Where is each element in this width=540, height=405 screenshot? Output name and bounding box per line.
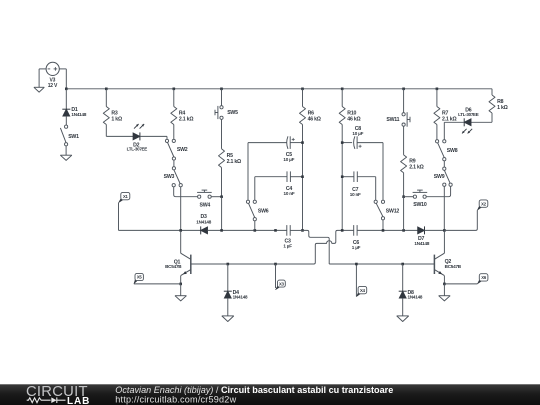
wire rail to SW11 [403,89,405,113]
ground below Q2 [439,284,451,301]
wire junction to SW4 [181,196,198,198]
capacitor C3 1uF [283,225,292,249]
junction dot X3 [274,263,277,266]
switch SW9 [434,167,452,186]
diode D1 1N4148 [62,107,87,117]
wire R8 to D6 [471,121,492,123]
svg-text:1 µF: 1 µF [283,244,292,249]
wire C5 to SW6 left [247,143,249,201]
wire V3 right to rail [59,68,66,70]
CircuitLab logo [26,384,90,405]
svg-text:2.1 kΩ: 2.1 kΩ [442,116,456,122]
svg-text:SW12: SW12 [386,209,400,215]
terminal X4 [357,286,367,296]
switch SW12 [374,200,399,220]
wire SW11 to R9 [403,126,405,155]
wire rail to SW5 [221,89,223,106]
resistor R5 2.1k [219,149,242,197]
svg-text:SW4: SW4 [200,202,211,208]
capacitor C5 10uF [248,136,303,162]
svg-text:10 nF: 10 nF [284,191,295,196]
svg-text:LAB: LAB [67,396,90,405]
wire SW3 blade tip down [180,187,182,197]
svg-text:SW11: SW11 [386,117,399,123]
transistor Q1 BC547B [165,253,191,275]
wire to X2 [444,210,477,230]
switch SW8 [436,140,458,161]
wire top supply rail [66,88,492,90]
switch SW3 [164,167,183,187]
diode D4 1N4148 [224,264,248,316]
wire SW9 blade tip to junction [444,186,450,196]
ground below V3 [34,87,44,92]
wire X6 to emitter [444,283,477,285]
wire rail to D1 [65,89,67,109]
footer credit text [115,385,393,405]
wire C3 to R6 node [290,229,302,231]
wire SW5 to R5 [221,119,223,148]
resistor R9 2.1k [401,155,424,197]
wire X4 [355,264,357,297]
ground below D8 [397,316,409,322]
svg-text:Octavian Enachi (tibijay) / Ci: Octavian Enachi (tibijay) / Circuit basc… [115,385,393,395]
capacitor C6 1uF [352,225,361,250]
svg-text:SW8: SW8 [447,148,458,154]
svg-text:46 kΩ: 46 kΩ [308,116,321,122]
terminal X5 [134,273,144,283]
wire cross B C6 node to Q1 base [191,230,354,264]
terminal X2 [477,200,488,210]
junction dot C4-R6 [301,175,304,178]
LED D2 LTL-307EE [127,124,148,152]
pushbutton SW10 [413,190,428,208]
diode D7 1N4148 [414,226,429,246]
wire SW9 junction down to D7 node [443,197,445,231]
footer bar [0,384,540,405]
junction dot R5 branch [220,229,223,232]
junction dot D8 [401,263,404,266]
wire C4 to SW6 right [254,177,256,201]
resistor R4 2.1k [171,89,194,140]
resistor R3 1k [103,89,122,137]
junction dot D4 [227,263,230,266]
svg-text:SW6: SW6 [258,208,269,214]
svg-text:10 µF: 10 µF [352,131,363,136]
switch SW2 [165,139,187,160]
junction dot Q1 emitter [179,283,182,286]
terminal X6 [477,274,488,284]
svg-text:12 V: 12 V [48,83,58,89]
wire R9 node to SW10 [404,196,414,198]
wire C6 right section [357,229,418,231]
wire Q1 emitter down [180,276,182,284]
svg-text:2.1 kΩ: 2.1 kΩ [227,159,241,165]
svg-text:1N4148: 1N4148 [414,241,429,246]
svg-text:1 µF: 1 µF [352,245,361,250]
svg-text:1 kΩ: 1 kΩ [111,116,122,122]
junction dot R10 bottom [341,229,344,232]
wire SW10 to SW9 junction [426,196,444,198]
transistor Q2 BC547B [434,253,461,275]
wire cross A C3 node to Q2 base [303,230,330,264]
junction dot Q2 collector node [443,229,446,232]
junction dot Q2 emitter [443,283,446,286]
terminal X1 [119,192,130,202]
wire SW12 to bottom node [382,220,384,231]
svg-text:SW2: SW2 [177,147,188,153]
junction dot C7-R10 [341,175,344,178]
diode D8 1N4148 [399,264,423,316]
wire R3 to D2 [106,135,133,137]
terminal X3 [276,280,286,290]
junction dot collector Q1 [179,229,182,232]
svg-text:LTL-307EE: LTL-307EE [127,147,148,152]
svg-text:10 µF: 10 µF [283,157,294,162]
wire SW9 left throw down [443,186,445,196]
svg-text:BC547B: BC547B [165,264,182,269]
svg-text:BC547B: BC547B [445,264,462,269]
wire D1 to SW1 [65,116,67,125]
capacitor C4 10nF [255,171,303,196]
wire junction down to collector node [180,197,182,231]
svg-text:1N4148: 1N4148 [196,219,211,224]
resistor R7 2.1k [434,89,457,140]
ground below D4 [222,316,234,322]
junction dot C8-R10 [341,141,344,144]
pushbutton SW4 [197,190,212,208]
switch SW1 [60,125,79,146]
wire D2 to SW2 [140,135,167,137]
wire SW4 to R5 node [211,196,221,198]
resistor R6 46k [300,89,321,231]
svg-text:SW9: SW9 [434,174,445,180]
switch SW6 [246,200,268,221]
junction dot C3-R6 [301,229,304,232]
svg-text:SW1: SW1 [68,134,79,140]
junction dot C5-R6 [301,141,304,144]
svg-text:LTL-307EE: LTL-307EE [458,112,479,117]
wire SW2 to SW3 [173,160,175,167]
wire R9 node down [403,197,405,231]
wire SW6 to bottom node [254,221,256,231]
junction dot SW4-R5 [220,195,223,198]
junction dot R9-SW10 [402,195,405,198]
wire cross A horizontal to Q2 [329,263,434,265]
wire Q1 collector [180,230,182,253]
svg-text:46 kΩ: 46 kΩ [347,116,360,122]
svg-text:SW3: SW3 [164,174,175,180]
junction dot X4 [355,263,358,266]
wire X5 to emitter [134,283,181,285]
junction dot SW12 bottom [382,229,385,232]
ground below SW1 [60,155,72,160]
junction dot SW6 branch [254,229,257,232]
svg-text:1N4148: 1N4148 [71,112,86,117]
resistor R10 46k [339,89,360,231]
pushbutton SW11 [386,112,410,127]
wire X1 down [118,203,120,231]
wire Q2 collector [443,230,445,253]
wire SW3 left throw to junction [174,187,181,197]
wire X3 [275,264,277,288]
wire left horizontal node [119,229,201,231]
LED D6 LTL-307EE [458,107,479,133]
pushbutton SW5 [215,106,238,120]
svg-text:2.1 kΩ: 2.1 kΩ [409,164,423,170]
svg-text:2.1 kΩ: 2.1 kΩ [179,116,193,122]
svg-text:1N4148: 1N4148 [408,294,423,299]
svg-text:SW10: SW10 [413,202,427,208]
wire V3 left to ground [39,68,46,70]
svg-text:10 nF: 10 nF [350,192,361,197]
wire D3 to C3 [208,229,287,231]
resistor R8 1k [489,89,508,123]
capacitor C7 10nF [342,171,376,200]
wire R5 node down [221,197,223,231]
wire D6 to SW8 [444,121,464,123]
wire D7 to Q2 collector node [425,229,445,231]
ground below Q1 [175,284,187,301]
junction dots on rail [65,88,438,91]
svg-text:1 kΩ: 1 kΩ [497,105,508,111]
wire SW1 to ground [65,146,67,155]
svg-text:1N4148: 1N4148 [233,294,248,299]
junction dot R9 bottom [402,229,405,232]
junction dot X3 column [274,229,277,232]
voltage source V3 12V [46,62,59,89]
wire Q2 emitter down [443,276,445,284]
svg-text:http://circuitlab.com/cr59d2w: http://circuitlab.com/cr59d2w [115,394,236,404]
wire SW8 to SW9 [443,161,445,167]
diode D3 1N4148 [196,214,211,234]
svg-text:SW5: SW5 [227,110,238,116]
capacitor C8 10uF [342,126,383,200]
